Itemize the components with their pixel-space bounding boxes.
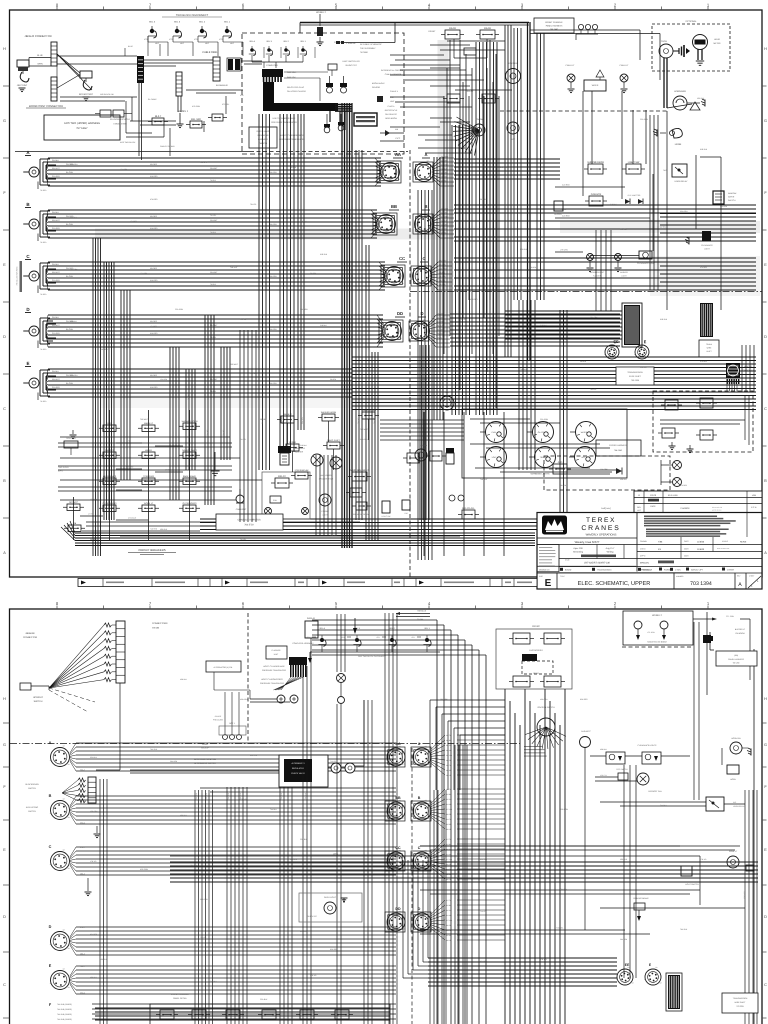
stub below connector B [37, 234, 39, 242]
fan D left [47, 315, 49, 325]
svg-text:29A GRN: 29A GRN [620, 938, 628, 941]
svg-text:5W WHT: 5W WHT [210, 219, 218, 222]
svg-text:W3 BL: W3 BL [446, 739, 451, 742]
svg-text:BLOCKDOWN: BLOCKDOWN [25, 783, 39, 786]
svg-text:6A ORN: 6A ORN [66, 275, 74, 278]
svg-text:A: A [26, 150, 30, 155]
svg-text:DIFFERENTIAL PRESSURE: DIFFERENTIAL PRESSURE [381, 69, 406, 72]
wire bundle B lines [48, 209, 377, 211]
adjuster circles [449, 495, 455, 501]
svg-text:D: D [26, 307, 30, 312]
hook wires CC p2 [385, 851, 405, 871]
svg-text:6A: 6A [63, 797, 66, 800]
svg-text:12A ORN: 12A ORN [140, 272, 148, 275]
svg-text:SWITCH: SWITCH [28, 787, 36, 790]
svg-text:C5A BLK: C5A BLK [190, 864, 198, 867]
top bus heavy wires [300, 22, 529, 24]
svg-text:RECEPTACLE: RECEPTACLE [385, 109, 398, 112]
svg-text:MODEL 1: MODEL 1 [178, 110, 189, 113]
fan into AA [375, 158, 382, 166]
svg-text:LIGHT: LIGHT [704, 248, 710, 251]
svg-text:LTR ORN: LTR ORN [560, 249, 568, 252]
svg-text:CAB-H LT: CAB-H LT [566, 64, 576, 67]
fan wires jib to boom point [57, 54, 80, 73]
EE bundle p2 [428, 957, 617, 959]
p2 vertical x227 [226, 787, 228, 1024]
svg-text:N58 BLK: N58 BLK [180, 678, 188, 681]
svg-text:BB: BB [391, 204, 397, 209]
svg-text:7/8 RED: 7/8 RED [40, 189, 47, 192]
svg-text:IGNITION SWITCH: IGNITION SWITCH [537, 706, 555, 709]
svg-text:D: D [420, 311, 423, 316]
connector strip jib upper [51, 42, 57, 66]
ignition key switch circle [506, 69, 521, 84]
svg-text:C53: C53 [390, 96, 393, 99]
svg-text:B: B [764, 479, 767, 483]
breaker box 4 [262, 1010, 276, 1019]
svg-text:3W RED: 3W RED [150, 163, 158, 166]
diode 1 [625, 199, 630, 204]
svg-text:C5A YEL: C5A YEL [357, 417, 360, 424]
wire bundle right of A [454, 158, 560, 160]
svg-text:6A: 6A [656, 966, 659, 969]
svg-text:MOUNTED ON BOOM: MOUNTED ON BOOM [647, 641, 667, 644]
warranty paragraph 1 [644, 516, 717, 518]
svg-text:TRANSMISSION: TRANSMISSION [597, 569, 612, 572]
vertical bundle x434 [433, 157, 435, 420]
light sw bottom [382, 501, 390, 513]
svg-text:CAB-H LT: CAB-H LT [620, 64, 630, 67]
svg-text:T6B WHT: T6B WHT [250, 372, 257, 375]
svg-text:REAR: REAR [533, 672, 539, 675]
svg-text:PLUG A: PLUG A [388, 105, 396, 108]
speaker 1 [673, 461, 682, 470]
svg-text:3W RED: 3W RED [150, 267, 158, 270]
svg-text:HOIST CYL/ROD/FORCE: HOIST CYL/ROD/FORCE [261, 678, 284, 681]
svg-text:COIL: COIL [273, 499, 277, 502]
bundle bottom left [75, 532, 535, 534]
svg-text:ANTI TWO (UPPER) HARNESS: ANTI TWO (UPPER) HARNESS [64, 122, 100, 125]
fan stack D p2 [431, 900, 445, 914]
svg-text:REPER: REPER [289, 441, 296, 444]
svg-text:W7 10A: W7 10A [446, 808, 453, 811]
svg-text:7W YEL: 7W YEL [250, 203, 257, 206]
stub below connector D [37, 341, 39, 349]
svg-text:SOL 1: SOL 1 [300, 40, 306, 43]
svg-text:CHANGE: CHANGE [680, 507, 690, 510]
svg-text:7/8 RED: 7/8 RED [40, 241, 47, 244]
svg-text:CTL ORN: CTL ORN [726, 615, 735, 618]
EE feed bundle [505, 310, 622, 312]
svg-text:17B YEL: 17B YEL [700, 858, 707, 861]
svg-text:BLUE: BLUE [128, 45, 134, 48]
svg-text:C: C [418, 846, 421, 850]
svg-text:7A4 BLB (SPARE): 7A4 BLB (SPARE) [57, 1013, 72, 1016]
svg-text:A: A [764, 551, 767, 555]
vertical bundle x280 [279, 114, 281, 452]
big bundle E right [352, 356, 756, 358]
svg-text:OPEN: OPEN [333, 853, 339, 856]
svg-text:D: D [764, 915, 767, 919]
comb connector far right [700, 303, 713, 337]
svg-text:LIGHT: LIGHT [322, 514, 328, 517]
fan into DD [377, 315, 384, 325]
svg-text:W7 10A: W7 10A [446, 754, 453, 757]
clearance light mid [639, 251, 652, 259]
svg-text:29A GRN: 29A GRN [200, 898, 208, 901]
svg-text:B: B [3, 479, 6, 483]
svg-text:TRANS: TRANS [540, 456, 547, 459]
svg-text:SOL 4: SOL 4 [319, 627, 325, 630]
relay in dashed box 4 [700, 430, 713, 440]
svg-text:A5B ORN: A5B ORN [240, 698, 248, 701]
svg-text:31A RED: 31A RED [441, 163, 449, 166]
svg-text:7A4 BLU: 7A4 BLU [270, 808, 278, 811]
terex logo [542, 516, 567, 535]
svg-text:6A ORN: 6A ORN [66, 382, 74, 385]
svg-text:N58 BLK: N58 BLK [600, 748, 608, 751]
wire 716 yel [420, 929, 625, 931]
svg-text:E: E [545, 578, 552, 589]
open wire [170, 855, 700, 857]
svg-text:N58 BLK: N58 BLK [100, 958, 108, 961]
svg-text:2W BLK: 2W BLK [52, 370, 60, 373]
dash etc circle [580, 737, 591, 748]
svg-text:W7 10A: W7 10A [446, 858, 453, 861]
vertical bundle x104 [103, 262, 105, 520]
breaker box 3 [226, 1010, 240, 1019]
gauge hook wires [470, 418, 530, 420]
svg-text:716 YEL: 716 YEL [200, 936, 207, 939]
svg-text:5W WHT: 5W WHT [441, 155, 449, 158]
wire bundle C lines [48, 261, 385, 263]
connector C left p2 [51, 852, 70, 871]
svg-text:C5A BLK: C5A BLK [480, 754, 488, 757]
svg-text:HARNESS: HARNESS [258, 138, 268, 141]
switch WARN LT [142, 425, 155, 432]
svg-text:7: 7 [149, 601, 152, 606]
stub below connector C [37, 286, 39, 294]
svg-text:CAB LIGHT: CAB LIGHT [236, 508, 247, 511]
rear outrigger switch box 2 [480, 30, 495, 39]
svg-text:6A: 6A [425, 745, 428, 748]
wires horn relay [600, 801, 706, 803]
svg-text:47A RED: 47A RED [150, 198, 158, 201]
svg-text:5W WHT: 5W WHT [441, 207, 449, 210]
wires cable reel down [138, 83, 140, 156]
svg-text:PANEL HARNESS: PANEL HARNESS [728, 658, 744, 661]
connector AA right [381, 163, 400, 182]
svg-text:DD: DD [395, 907, 401, 911]
svg-text:RHEOSTAT: RHEOSTAT [307, 915, 317, 918]
svg-text:716 YEL: 716 YEL [480, 910, 487, 913]
svg-text:7A4 BLB (SPARE): 7A4 BLB (SPARE) [57, 1018, 72, 1021]
svg-text:ELEC. SCHEMATIC, UPPER: ELEC. SCHEMATIC, UPPER [578, 581, 651, 587]
svg-text:31B BLK: 31B BLK [540, 324, 548, 327]
svg-text:MANUAL: MANUAL [640, 562, 650, 565]
gray wash right B [560, 221, 760, 233]
svg-text:700 2697: 700 2697 [550, 28, 559, 31]
svg-text:O.B. UMATTER: O.B. UMATTER [628, 194, 641, 197]
svg-text:7A4 BLU: 7A4 BLU [150, 748, 158, 751]
svg-text:DATE: DATE [684, 555, 689, 558]
horn relay [672, 164, 687, 177]
svg-text:WINDOW: WINDOW [728, 192, 737, 195]
svg-text:UPRIGHT: UPRIGHT [33, 696, 44, 699]
relay all box [462, 510, 475, 519]
svg-text:CC: CC [395, 846, 401, 850]
vertical bundle x505 [504, 25, 506, 357]
svg-text:MAIN GAUGE LT: MAIN GAUGE LT [350, 469, 369, 472]
svg-text:OTHER: OTHER [727, 569, 735, 572]
conn column verticals [417, 190, 419, 560]
ground bottom left 1 [72, 430, 74, 434]
resistor box left [64, 441, 78, 448]
x505 column long [513, 28, 515, 300]
dome coil [270, 496, 281, 503]
pot extra wires [214, 689, 250, 691]
svg-text:6TC YEL: 6TC YEL [222, 103, 229, 106]
center row verticals [287, 423, 289, 444]
breaker box 6 [335, 1010, 349, 1019]
svg-text:6A: 6A [63, 744, 66, 747]
svg-text:703 1394: 703 1394 [690, 581, 712, 587]
svg-text:HORN: HORN [730, 778, 736, 781]
upright switch box [20, 683, 31, 690]
svg-text:7A BLK: 7A BLK [210, 231, 217, 234]
svg-text:N58 BLK: N58 BLK [590, 260, 598, 263]
svg-text:F: F [764, 191, 767, 195]
svg-text:7670080: 7670080 [360, 51, 369, 54]
svg-text:1: 1 [707, 601, 710, 606]
svg-text:31A RED: 31A RED [52, 386, 60, 389]
horn relay p2 [706, 797, 724, 811]
svg-text:7/16 YEL: 7/16 YEL [556, 927, 563, 930]
horn bar [673, 96, 687, 110]
fan stack A p2 [431, 735, 445, 749]
svg-text:42 YEL: 42 YEL [660, 226, 666, 229]
wire bundle D p2 [70, 927, 76, 937]
svg-text:58 ORN: 58 ORN [310, 272, 317, 275]
transmission fuse shift box [616, 367, 654, 385]
wire 7/58 blue [396, 613, 430, 615]
svg-text:2W BLK: 2W BLK [52, 159, 60, 162]
svg-text:C: C [49, 845, 52, 849]
module circles [331, 763, 341, 773]
svg-text:T6B WHT: T6B WHT [230, 363, 239, 366]
svg-text:7W YEL: 7W YEL [460, 318, 466, 321]
chassis ground mid [685, 237, 689, 245]
wire bundle E p2 [70, 966, 76, 976]
svg-text:BLUE: BLUE [37, 54, 43, 57]
svg-text:C5A YEL: C5A YEL [222, 429, 225, 436]
svg-text:C: C [764, 407, 767, 411]
svg-text:FRONT: FRONT [429, 30, 437, 33]
svg-text:17B YEL: 17B YEL [90, 860, 97, 863]
diode in stereo box [616, 468, 622, 474]
heater grille [726, 363, 740, 378]
svg-text:11/8/00: 11/8/00 [697, 541, 705, 544]
svg-text:58 ORN: 58 ORN [260, 418, 267, 421]
switch OUTRIGGERS [183, 505, 196, 512]
outrigger front sw 1 [513, 633, 530, 644]
svg-text:LT YEL: LT YEL [88, 513, 94, 516]
ladder to fan wire [119, 683, 121, 770]
relay in dashed box 1 [665, 400, 678, 410]
svg-text:DATE: DATE [684, 540, 689, 543]
hook wires DD p2 [385, 912, 405, 932]
svg-text:ALTERNATOR (4) P.B.: ALTERNATOR (4) P.B. [213, 666, 233, 669]
svg-text:T5A-7: T5A-7 [80, 769, 85, 772]
svg-text:17B YEL: 17B YEL [240, 798, 247, 801]
svg-text:4BO: 4BO [205, 42, 209, 45]
svg-text:7A4 BLB (SPARE): 7A4 BLB (SPARE) [57, 1008, 72, 1011]
svg-text:12A ORN: 12A ORN [120, 168, 128, 171]
p2 vertical x100 [99, 779, 101, 1024]
window wiper switch [713, 191, 724, 204]
lower speaker 1 [311, 454, 323, 466]
svg-text:6: 6 [242, 601, 245, 606]
svg-text:TO USE: TO USE [732, 662, 740, 665]
svg-text:2W BLK: 2W BLK [52, 263, 60, 266]
outrigger front sw 2 [544, 633, 561, 644]
pot circles and wires [224, 718, 226, 734]
svg-text:FRONT CONSOLE: FRONT CONSOLE [545, 21, 563, 24]
svg-text:SOL 3: SOL 3 [266, 40, 272, 43]
svg-text:BUZZER LT: BUZZER LT [735, 628, 746, 631]
svg-text:31A RED: 31A RED [150, 175, 158, 178]
svg-text:SOL 3: SOL 3 [174, 21, 181, 24]
cable reel comb [213, 57, 220, 81]
svg-text:W/ CABLE SCHEMATIC: W/ CABLE SCHEMATIC [360, 43, 382, 46]
svg-text:4BO: 4BO [155, 42, 159, 45]
svg-text:WORK LT: WORK LT [652, 614, 662, 617]
connector AA p2 [387, 748, 405, 766]
brake sw relay [356, 502, 367, 510]
outrigger dark connector [522, 654, 537, 661]
switch column verticals [109, 410, 111, 540]
center lower switch [295, 472, 308, 479]
svg-text:A: A [738, 582, 742, 588]
transducer sym 1 [324, 124, 330, 128]
p2 fan stack verticals [454, 745, 456, 1024]
svg-text:A: A [3, 551, 6, 555]
svg-text:47A RED: 47A RED [470, 298, 478, 301]
svg-text:SOL 2: SOL 2 [389, 627, 395, 630]
svg-text:HOUR: HOUR [714, 38, 720, 41]
svg-text:7W YEL: 7W YEL [240, 538, 246, 541]
svg-text:WASHER HORN: WASHER HORN [321, 411, 337, 414]
outrigger cluster box [496, 629, 572, 689]
svg-text:JIB/AUX CONNECTOR: JIB/AUX CONNECTOR [24, 35, 51, 38]
top right feed wires [530, 29, 640, 31]
svg-text:12A ORN: 12A ORN [90, 498, 98, 501]
cab lamp 2 [620, 74, 628, 82]
svg-text:OUTRIGGERS: OUTRIGGERS [529, 649, 543, 652]
svg-text:RESISTOR: RESISTOR [66, 437, 76, 440]
sensor 1 [326, 83, 333, 87]
svg-text:COMPUTER ASSEMBLY: COMPUTER ASSEMBLY [292, 642, 314, 645]
svg-text:PLUG/RECEPTACLE: PLUG/RECEPTACLE [110, 118, 131, 121]
svg-text:A5B ORN: A5B ORN [140, 868, 149, 871]
rated load box [249, 127, 277, 148]
vertical bundle x356 [355, 150, 357, 520]
svg-text:N58 BLK: N58 BLK [70, 320, 78, 323]
wire jib to reel [57, 55, 137, 57]
vertical bundle x537 [536, 20, 538, 300]
hydraulic dark box [354, 113, 377, 126]
svg-text:7/8 RED: 7/8 RED [40, 348, 47, 351]
svg-text:6A ORN: 6A ORN [270, 223, 277, 226]
svg-text:N58 BLK: N58 BLK [420, 378, 428, 381]
stub below connector A [37, 182, 39, 190]
section divider dashed x248 [247, 613, 249, 743]
svg-text:T6B WHT: T6B WHT [360, 428, 369, 431]
computer heavy bus vertical [263, 82, 274, 103]
svg-text:CABLE 1784 W/N: CABLE 1784 W/N [160, 145, 175, 148]
svg-text:B: B [26, 202, 30, 207]
p2 nested corner bends [312, 619, 437, 621]
svg-text:7A4 BLU: 7A4 BLU [210, 980, 218, 983]
svg-text:5W WHT: 5W WHT [52, 219, 61, 222]
tall ground mid [214, 452, 216, 470]
center upper switch row [281, 416, 294, 423]
svg-text:C5A GRN: C5A GRN [70, 163, 78, 166]
connector B p2 [413, 802, 431, 820]
svg-text:6A ORN: 6A ORN [270, 382, 277, 385]
svg-text:SPEAKER: SPEAKER [743, 890, 746, 898]
p2 upper horizontals [200, 787, 396, 789]
svg-text:PWR 12V-: PWR 12V- [287, 76, 296, 79]
cable reel dark connector strip [137, 56, 144, 83]
fan out of C [430, 262, 438, 270]
svg-text:A5B ORN: A5B ORN [90, 810, 98, 813]
drawn row full [537, 565, 636, 567]
svg-text:17B YEL: 17B YEL [540, 958, 547, 961]
hook wires BB p2 [385, 801, 405, 821]
cable reel wires [144, 59, 213, 61]
svg-text:G: G [3, 119, 6, 123]
vertical bundle x170 [169, 347, 171, 500]
svg-text:DATE: DATE [650, 505, 656, 508]
svg-text:58 ORN: 58 ORN [560, 484, 567, 487]
svg-text:31B BLK: 31B BLK [320, 324, 328, 327]
svg-text:LIGHT SW: LIGHT SW [382, 515, 391, 518]
hook wires DD [379, 320, 403, 342]
ground B p2 [96, 826, 98, 833]
sensor 2 [340, 83, 347, 87]
svg-text:7A4-7: 7A4-7 [80, 795, 85, 798]
connector C left [29, 271, 39, 281]
gauge VOLT [486, 447, 507, 468]
approved smudge [581, 555, 616, 558]
svg-text:6A: 6A [425, 849, 428, 852]
right info rows [637, 544, 762, 546]
wire bundle E lines [48, 368, 352, 370]
svg-text:6A ORN: 6A ORN [66, 223, 74, 226]
svg-text:D: D [49, 925, 52, 929]
svg-text:GM: GM [405, 512, 408, 515]
svg-text:31A RED: 31A RED [52, 175, 60, 178]
EE connectors p2 [617, 969, 633, 985]
switch STEERING [142, 478, 155, 485]
arrow down sym [353, 628, 357, 634]
svg-text:E: E [644, 340, 647, 344]
svg-text:C5A-2: C5A-2 [80, 992, 85, 995]
wire bundle right of C [454, 257, 756, 259]
svg-text:CLEARANCE LIGHTS: CLEARANCE LIGHTS [638, 744, 658, 747]
svg-text:HOIST CYLINDER BASE: HOIST CYLINDER BASE [273, 117, 296, 120]
